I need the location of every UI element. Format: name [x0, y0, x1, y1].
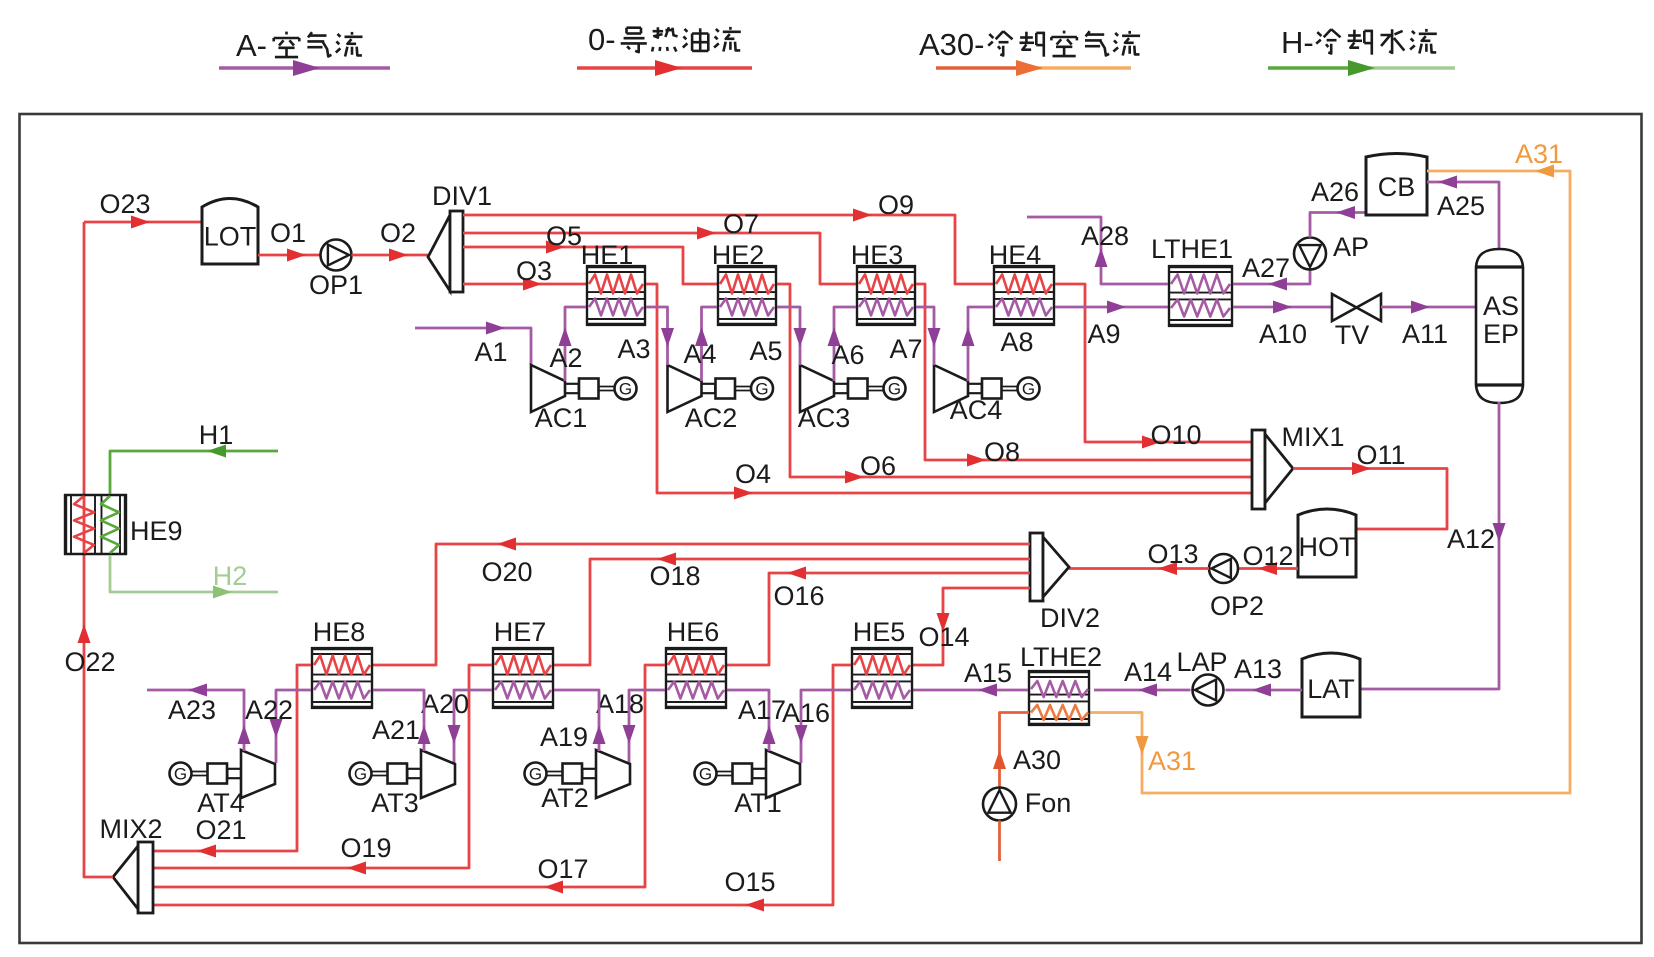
tank CB [1366, 154, 1427, 216]
mixer MIX2 [99, 814, 162, 913]
wire A1 (air inlet to AC1) [415, 322, 531, 368]
svg-text:LTHE1: LTHE1 [1151, 234, 1233, 264]
wire O8 (HE3 oil outlet to MIX1) [916, 284, 1252, 467]
svg-text:O6: O6 [860, 451, 896, 481]
svg-text:A23: A23 [168, 695, 216, 725]
wire A3 (HE1 to AC2) [617, 307, 674, 365]
svg-text:O19: O19 [340, 833, 391, 863]
svg-text:G: G [174, 765, 187, 784]
svg-text:HE9: HE9 [130, 516, 183, 546]
heat exchanger HE2 [712, 240, 777, 326]
svg-text:HOT: HOT [1299, 532, 1356, 562]
svg-text:A31: A31 [1148, 746, 1196, 776]
wire A2 (AC1 to HE1) [549, 307, 586, 381]
pump LAP [1176, 647, 1227, 706]
wire A22 (HE8 to AT4) [245, 690, 311, 763]
wire O22 (MIX2 through HE9 to O23) [64, 222, 115, 877]
wire A9 (HE4 to LTHE1) [1055, 301, 1168, 350]
wire A19 (AT2 to HE7) [540, 690, 606, 752]
wire O6 (HE2 oil outlet to MIX1) [777, 284, 1252, 484]
wire O20 (DIV2 to HE8 oil inlet) [373, 538, 1030, 666]
pump AP [1294, 232, 1369, 270]
wire A18 (HE6 to AT2) [596, 689, 665, 763]
wire O12 (HOT to OP2) [1238, 541, 1298, 575]
heat exchanger HE7 [492, 617, 554, 709]
heat exchanger HE3 [851, 240, 916, 326]
svg-text:O2: O2 [380, 218, 416, 248]
svg-text:AS: AS [1483, 291, 1519, 321]
svg-text:AT3: AT3 [371, 788, 419, 818]
wire O9 (DIV1 to HE4 oil inlet) [463, 190, 993, 284]
svg-text:G: G [888, 380, 901, 399]
svg-text:G: G [619, 380, 632, 399]
svg-text:HE5: HE5 [853, 617, 906, 647]
pump OP2 [1209, 554, 1264, 621]
svg-text:O15: O15 [724, 867, 775, 897]
svg-text:A13: A13 [1234, 654, 1282, 684]
wire O23 (MIX2 outlet to LOT) [84, 189, 202, 229]
svg-text:O1: O1 [270, 218, 306, 248]
svg-text:Fon: Fon [1025, 788, 1072, 818]
turbine AT1 [695, 750, 801, 818]
svg-text:O8: O8 [984, 437, 1020, 467]
heat exchanger HE4 [989, 240, 1055, 326]
wire O17 (HE6 oil outlet to MIX2) [153, 665, 665, 894]
svg-text:A8: A8 [1000, 327, 1033, 357]
svg-text:O4: O4 [735, 459, 771, 489]
svg-text:H-: H- [1281, 25, 1314, 60]
svg-text:H1: H1 [199, 420, 234, 450]
wire A10 (LTHE1 to TV) [1233, 301, 1332, 350]
svg-text:O3: O3 [516, 256, 552, 286]
wire O14 (DIV2 to HE5 oil inlet) [913, 588, 1030, 665]
heat exchanger HE8 [311, 617, 373, 709]
wire O3 (DIV1 to HE1 oil inlet) [463, 256, 586, 291]
svg-text:O7: O7 [723, 209, 759, 239]
svg-text:AC1: AC1 [535, 403, 588, 433]
svg-text:A1: A1 [474, 337, 507, 367]
svg-text:AP: AP [1333, 232, 1369, 262]
wire H2 (cooling water outlet of HE9) [110, 555, 278, 599]
turbine AT2 [525, 750, 631, 813]
wire A5 (HE2 to AC3) [749, 307, 806, 366]
turbine AT4 [170, 750, 276, 818]
svg-text:AT2: AT2 [541, 783, 589, 813]
wire O15 (HE5 oil outlet to MIX2) [153, 665, 851, 912]
heat exchanger HE1 [581, 240, 646, 326]
svg-text:A-: A- [236, 28, 267, 63]
wire O2 (OP1 to DIV1) [352, 218, 429, 262]
svg-text:AC2: AC2 [685, 403, 738, 433]
svg-text:O23: O23 [99, 189, 150, 219]
wire O11 (MIX1 to HOT) [1293, 440, 1447, 529]
svg-text:O17: O17 [537, 854, 588, 884]
svg-text:HE3: HE3 [851, 240, 904, 270]
svg-text:O11: O11 [1356, 440, 1405, 470]
svg-text:HE2: HE2 [712, 240, 765, 270]
svg-text:DIV2: DIV2 [1040, 603, 1100, 633]
svg-text:MIX1: MIX1 [1281, 422, 1344, 452]
heat exchanger LTHE2 [1020, 642, 1102, 726]
svg-text:HE8: HE8 [313, 617, 366, 647]
svg-text:TV: TV [1335, 320, 1370, 350]
legend cooling-water-stream H (green) [1268, 25, 1455, 76]
wire O19 (HE7 oil outlet to MIX2) [153, 665, 492, 875]
svg-text:G: G [354, 765, 367, 784]
wire A26 (CB to AP) [1310, 177, 1366, 238]
svg-text:A21: A21 [372, 715, 420, 745]
heat exchanger LTHE1 [1151, 234, 1233, 327]
wire O5 (DIV1 to HE2 oil inlet) [463, 221, 717, 284]
svg-text:A25: A25 [1437, 191, 1485, 221]
svg-text:LAP: LAP [1176, 647, 1227, 677]
svg-text:A15: A15 [964, 658, 1012, 688]
compressor AC3 [798, 365, 906, 433]
svg-text:A10: A10 [1259, 319, 1307, 349]
svg-text:A12: A12 [1447, 524, 1495, 554]
svg-text:DIV1: DIV1 [432, 181, 492, 211]
svg-text:G: G [529, 765, 542, 784]
svg-text:H2: H2 [213, 561, 248, 591]
legend oil-stream 0 (red) [577, 22, 752, 76]
wire A28 (LTHE1 vent line) [1027, 217, 1168, 284]
wire A27 (AP to LTHE1) [1233, 253, 1310, 291]
svg-text:HE1: HE1 [581, 240, 634, 270]
mixer MIX1 [1252, 422, 1345, 509]
svg-text:O18: O18 [649, 561, 700, 591]
svg-text:O10: O10 [1150, 420, 1201, 450]
legend cooling-air-stream A30 (orange) [919, 27, 1140, 76]
pump Fon [983, 788, 1071, 862]
wire A25 (ASEP top to CB) [1427, 176, 1499, 249]
wire A12 (ASEP to LAT) [1360, 402, 1506, 689]
wire O16 (DIV2 to HE6 oil inlet) [727, 567, 1030, 666]
svg-text:A3: A3 [617, 334, 650, 364]
wire A4 (AC2 to HE2) [683, 307, 717, 381]
svg-text:HE7: HE7 [494, 617, 547, 647]
svg-text:EP: EP [1483, 319, 1519, 349]
wire A23 (AT4 exhaust) [147, 684, 251, 752]
svg-text:A11: A11 [1402, 319, 1448, 349]
svg-text:O13: O13 [1147, 539, 1198, 569]
svg-text:A28: A28 [1081, 221, 1129, 251]
legend air-stream A (purple) [219, 28, 390, 76]
heat exchanger HE5 [851, 617, 913, 709]
splitter DIV2 [1030, 533, 1100, 633]
svg-text:A2: A2 [549, 343, 582, 373]
tank LOT [202, 199, 258, 265]
svg-text:AC4: AC4 [950, 395, 1003, 425]
svg-text:LAT: LAT [1307, 674, 1355, 704]
svg-text:A26: A26 [1311, 177, 1359, 207]
svg-text:A30-: A30- [919, 27, 984, 62]
svg-text:AT4: AT4 [197, 788, 245, 818]
svg-text:O9: O9 [878, 190, 914, 220]
svg-text:A31: A31 [1515, 139, 1563, 169]
valve TV [1332, 294, 1381, 350]
wire A8 (AC4 to HE4) [962, 307, 1034, 381]
svg-text:A30: A30 [1013, 745, 1061, 775]
svg-text:HE6: HE6 [667, 617, 720, 647]
wire A31 return (LTHE2 to CB, cooling air) [1090, 139, 1570, 793]
wire A20 (HE7 to AT3) [421, 689, 492, 763]
svg-text:MIX2: MIX2 [99, 814, 162, 844]
svg-text:A9: A9 [1087, 319, 1120, 349]
svg-text:O16: O16 [773, 581, 824, 611]
wire A21 (AT3 to HE8) [372, 690, 431, 751]
wire O21 (HE8 oil outlet to MIX2) [153, 665, 311, 858]
svg-text:HE4: HE4 [989, 240, 1042, 270]
wire O4 (HE1 oil outlet to MIX1) [646, 284, 1252, 500]
svg-text:O5: O5 [546, 221, 582, 251]
svg-text:O14: O14 [918, 622, 969, 652]
svg-text:A7: A7 [889, 334, 922, 364]
svg-text:OP2: OP2 [1210, 591, 1264, 621]
heat exchanger HE6 [665, 617, 727, 709]
svg-text:G: G [755, 380, 768, 399]
wire H1 (cooling water inlet to HE9) [110, 420, 278, 494]
svg-text:A5: A5 [749, 336, 782, 366]
wire A15 (LTHE2 to HE5) [913, 658, 1028, 697]
svg-text:O22: O22 [64, 647, 115, 677]
svg-text:AC3: AC3 [798, 403, 851, 433]
wire A14 (LAP to LTHE2) [1094, 657, 1191, 697]
svg-text:A17: A17 [738, 695, 786, 725]
wire O10 (HE4 oil outlet to MIX1) [1055, 284, 1252, 450]
compressor AC4 [934, 365, 1040, 425]
svg-text:AT1: AT1 [734, 788, 782, 818]
svg-text:A22: A22 [245, 695, 293, 725]
svg-text:G: G [1022, 380, 1035, 399]
wire A11 (TV to ASEP) [1381, 301, 1476, 350]
svg-text:A14: A14 [1124, 657, 1172, 687]
wire A6 (AC3 to HE3) [828, 307, 865, 381]
svg-text:LTHE2: LTHE2 [1020, 642, 1102, 672]
wire O1 (LOT to OP1) [258, 218, 321, 262]
svg-text:A19: A19 [540, 722, 588, 752]
tank HOT [1298, 509, 1356, 577]
vessel ASEP [1476, 249, 1523, 403]
splitter DIV1 [428, 181, 492, 292]
pump OP1 [309, 240, 363, 301]
svg-text:A4: A4 [683, 339, 716, 369]
wire O18 (DIV2 to HE7 oil inlet) [554, 553, 1030, 666]
svg-text:A16: A16 [782, 698, 830, 728]
svg-text:0-: 0- [588, 22, 616, 57]
turbine AT3 [350, 750, 456, 818]
svg-text:O12: O12 [1242, 541, 1293, 571]
heat exchanger HE9 [64, 494, 183, 555]
compressor AC2 [668, 365, 774, 433]
wire O7 (DIV1 to HE3 oil inlet) [463, 209, 856, 284]
wire A16 (HE5 to AT1) [782, 690, 851, 763]
tank LAT [1302, 653, 1360, 717]
compressor AC1 [531, 365, 637, 433]
svg-text:G: G [699, 765, 712, 784]
svg-text:OP1: OP1 [309, 270, 363, 300]
wire A17 (AT1 to HE6) [727, 690, 786, 751]
svg-text:O20: O20 [481, 557, 532, 587]
wire A13 (LAT to LAP) [1226, 654, 1303, 697]
wire A30 (Fon to LTHE2, cooling air) [993, 713, 1061, 788]
svg-text:LOT: LOT [204, 222, 257, 252]
wire O13 (OP2 to DIV2) [1069, 539, 1209, 575]
svg-text:CB: CB [1378, 172, 1416, 202]
svg-text:A6: A6 [831, 340, 864, 370]
svg-text:A20: A20 [421, 689, 469, 719]
svg-text:A18: A18 [596, 689, 644, 719]
wire A7 (HE3 to AC4) [889, 307, 940, 365]
svg-text:O21: O21 [195, 815, 246, 845]
svg-text:A27: A27 [1242, 253, 1290, 283]
